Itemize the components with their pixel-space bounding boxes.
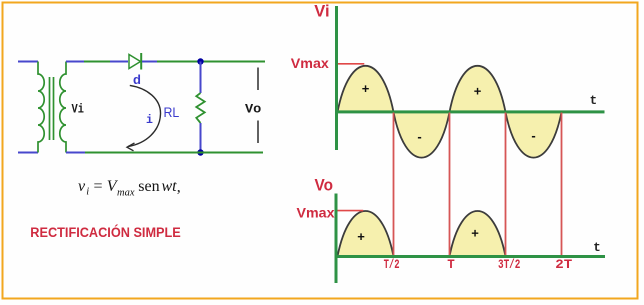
svg-text:i: i bbox=[86, 187, 89, 198]
svg-text:-: - bbox=[417, 129, 421, 144]
wire resistor top lead blue bbox=[200, 62, 202, 94]
svg-text:Vi: Vi bbox=[72, 101, 85, 116]
Vo hump 1 curve bbox=[338, 211, 394, 256]
svg-text:Vmax: Vmax bbox=[297, 205, 335, 221]
Vo bracket top bbox=[257, 68, 259, 91]
transformer core bbox=[50, 77, 54, 140]
wire primary bottom stub bbox=[18, 152, 38, 154]
wire node top green bbox=[157, 61, 265, 63]
Vi sine curve bbox=[338, 66, 562, 158]
transformer secondary winding bbox=[60, 62, 66, 153]
Vi wave lobe 3 fill bbox=[450, 66, 506, 112]
svg-text:Vmax: Vmax bbox=[291, 55, 329, 71]
wire secondary top blue bbox=[66, 61, 84, 63]
Vo hump 2 fill bbox=[450, 211, 506, 256]
wire bottom green bbox=[85, 152, 263, 154]
svg-text:+: + bbox=[357, 229, 365, 244]
Vo hump 1 fill bbox=[338, 211, 394, 256]
svg-text:max: max bbox=[117, 187, 135, 198]
svg-text:i: i bbox=[146, 114, 153, 127]
diode d cathode bar bbox=[140, 53, 142, 70]
svg-text:3T/2: 3T/2 bbox=[498, 258, 521, 272]
svg-text:T: T bbox=[447, 258, 455, 272]
svg-text:RECTIFICACIÓN SIMPLE: RECTIFICACIÓN SIMPLE bbox=[30, 225, 181, 240]
red marker line at T bbox=[449, 113, 451, 258]
formula vi = Vmax sen wt bbox=[78, 178, 181, 198]
wire secondary bottom blue bbox=[66, 152, 85, 154]
svg-text:t: t bbox=[593, 241, 601, 255]
Vi axis vertical bbox=[335, 6, 338, 150]
svg-text:RL: RL bbox=[164, 104, 180, 120]
svg-text:v: v bbox=[78, 178, 86, 195]
svg-text:T/2: T/2 bbox=[384, 258, 400, 272]
svg-text:d: d bbox=[133, 72, 141, 87]
Vo bracket bottom bbox=[257, 121, 259, 144]
wire primary top stub bbox=[18, 61, 38, 63]
transformer primary winding bbox=[38, 62, 44, 153]
svg-text:+: + bbox=[471, 226, 479, 241]
Vi axis horizontal bbox=[337, 110, 605, 113]
wire secondary top green bbox=[84, 61, 110, 63]
Vi wave lobe 2 fill bbox=[394, 112, 450, 158]
svg-text:=: = bbox=[94, 178, 103, 195]
node junction bottom bbox=[197, 149, 203, 155]
svg-text:+: + bbox=[474, 84, 482, 99]
red marker line at 2T bbox=[561, 113, 563, 258]
svg-text:,: , bbox=[177, 179, 181, 196]
red marker line at T/2 bbox=[393, 113, 395, 258]
diode d triangle bbox=[129, 55, 141, 69]
svg-text:-: - bbox=[531, 128, 535, 143]
svg-text:wt: wt bbox=[162, 178, 178, 195]
svg-text:t: t bbox=[590, 94, 598, 108]
svg-text:2T: 2T bbox=[555, 258, 573, 272]
Vo hump 2 curve bbox=[450, 211, 506, 256]
svg-text:Vo: Vo bbox=[245, 102, 262, 117]
resistor RL zigzag bbox=[196, 93, 204, 123]
svg-text:sen: sen bbox=[138, 178, 159, 195]
wire resistor bottom lead blue bbox=[200, 123, 202, 153]
Vmax level line bottom bbox=[336, 210, 363, 212]
current arrow head bbox=[127, 143, 135, 151]
svg-text:Vi: Vi bbox=[314, 2, 329, 20]
Vi wave lobe 4 fill bbox=[506, 112, 562, 158]
Vi wave lobe 1 fill bbox=[338, 66, 394, 112]
Vmax level line top bbox=[338, 63, 365, 65]
wire to diode anode blue bbox=[110, 61, 128, 63]
svg-text:Vo: Vo bbox=[315, 176, 334, 194]
node junction top bbox=[197, 58, 203, 64]
Vo axis vertical bbox=[335, 194, 338, 284]
Vo axis horizontal bbox=[336, 255, 605, 258]
red marker line at 3T/2 bbox=[505, 113, 507, 258]
wire diode to node blue bbox=[142, 61, 157, 63]
current loop arc bbox=[128, 85, 161, 146]
svg-text:+: + bbox=[362, 81, 370, 96]
